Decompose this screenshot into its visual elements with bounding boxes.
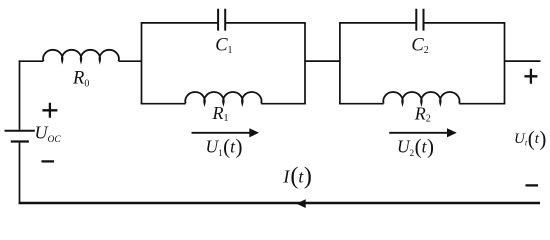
wire block2 top right [424,22,505,24]
plus sign right [524,69,537,84]
capacitor C2 plates [416,9,423,31]
svg-text:UOC: UOC [35,122,62,145]
arrow U1(t) [192,128,260,137]
wire between blocks [305,60,341,62]
node block2 left edge [339,23,341,104]
svg-text:I(t): I(t) [282,164,312,190]
arrow I(t) current direction [296,199,306,208]
wire top from source to R0 [19,60,44,62]
wire left vertical upper [19,60,21,129]
wire block1 bottom right [261,103,306,105]
wire block1 bottom left [141,103,186,105]
svg-text:C2: C2 [411,35,428,56]
battery U_OC long plate [5,130,35,132]
capacitor C1 plates [218,9,225,31]
wire block2 bottom left [339,103,384,105]
svg-text:R2: R2 [414,104,431,125]
svg-text:R1: R1 [212,103,229,124]
wire block1 top left [141,22,218,24]
arrow U2(t) [389,128,457,137]
svg-text:U2(t): U2(t) [397,135,434,159]
wire block2 bottom right [459,103,505,105]
svg-text:R0: R0 [72,69,89,90]
wire block1 top right [226,22,306,24]
wire R0 to block1 [119,60,142,62]
resistor R1 coil [185,92,261,103]
wire block2 top left [339,22,415,24]
wire output terminal [505,60,541,62]
minus sign left [42,160,55,162]
node block2 right edge [504,23,506,104]
plus sign left [42,103,57,118]
resistor R2 coil [383,92,459,103]
wire left vertical lower [19,143,21,204]
battery U_OC short plate [11,140,29,142]
resistor R0 coil [43,50,119,61]
node block1 left edge [141,23,143,104]
minus sign right [526,184,539,186]
wire bottom return [19,202,540,204]
svg-text:C1: C1 [215,35,232,56]
node block1 right edge [304,23,306,104]
svg-text:Ut(t): Ut(t) [514,126,546,150]
svg-text:U1(t): U1(t) [206,135,243,159]
